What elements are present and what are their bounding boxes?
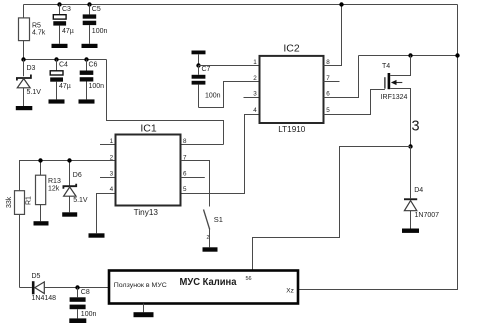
svg-text:R1: R1 <box>26 196 33 205</box>
svg-text:Tiny13: Tiny13 <box>134 208 159 217</box>
wire IC2 pin8 up to top rail <box>324 5 342 66</box>
node junction C7 <box>196 63 200 67</box>
wire IC1 pin7 to S1 <box>181 161 210 207</box>
svg-text:3: 3 <box>412 118 420 134</box>
svg-text:Xz: Xz <box>286 287 294 294</box>
svg-text:12k: 12k <box>48 186 60 193</box>
svg-text:IC1: IC1 <box>140 122 157 134</box>
capacitor C6 <box>80 60 94 100</box>
ground under C4 <box>49 99 65 103</box>
svg-text:S1: S1 <box>214 215 223 224</box>
ground under S1 <box>203 247 218 251</box>
ground under C5 <box>82 44 98 48</box>
wire MUC ground <box>143 304 145 313</box>
node junction C8 <box>75 285 79 289</box>
svg-text:47µ: 47µ <box>59 83 71 90</box>
node junction C3 <box>57 2 61 6</box>
svg-text:2: 2 <box>253 75 257 82</box>
wire drain rail <box>359 55 458 57</box>
capacitor C5 <box>83 5 97 44</box>
ground under D3 <box>16 106 33 110</box>
svg-text:C3: C3 <box>62 6 71 13</box>
wire IC2 pin5 to T4 gate <box>324 90 385 115</box>
svg-text:5: 5 <box>326 107 330 114</box>
svg-text:6: 6 <box>183 171 187 178</box>
svg-text:4.7k: 4.7k <box>32 29 46 36</box>
node junction source D4 <box>408 144 412 148</box>
svg-text:56: 56 <box>246 276 252 282</box>
ground under C8 <box>69 318 86 323</box>
svg-text:8: 8 <box>183 138 187 145</box>
ground under MUC box <box>134 312 154 317</box>
node junction drain rail T4 <box>408 53 412 57</box>
block MUC Kalina <box>109 271 298 304</box>
svg-text:C4: C4 <box>59 62 68 69</box>
svg-text:C6: C6 <box>89 62 98 69</box>
wire IC1 pin8 <box>181 144 224 146</box>
ground under R13 <box>34 221 49 225</box>
ground under C6 <box>79 99 95 103</box>
wire IC1 pin1 stub <box>100 144 116 146</box>
ground under D4 <box>402 229 419 233</box>
wire IC2 pin7 stub <box>324 81 340 83</box>
svg-text:100n: 100n <box>89 83 105 90</box>
wire IC2 pin1 to C7 <box>199 65 260 67</box>
switch S1 <box>204 210 210 248</box>
node junction pin8 rail <box>339 2 343 6</box>
svg-text:5: 5 <box>183 186 187 193</box>
transistor T4 MOSFET <box>385 56 411 147</box>
node junction C6 <box>84 57 88 61</box>
node junction C5 <box>87 2 91 6</box>
label C6 100n <box>89 62 105 90</box>
svg-text:Ползунок в МУС: Ползунок в МУС <box>114 282 167 289</box>
diode D5 <box>20 281 110 294</box>
node junction C4 <box>54 57 58 61</box>
zener diode D6 <box>63 161 76 213</box>
wire right rail <box>457 5 459 290</box>
svg-text:T4: T4 <box>382 63 390 70</box>
svg-text:1: 1 <box>253 59 257 66</box>
label C5 100n <box>92 6 108 35</box>
node junction R5/D3 <box>21 57 25 61</box>
label R13 12k <box>48 178 61 193</box>
chip IC1 Tiny13 <box>116 135 181 206</box>
svg-text:33k: 33k <box>6 196 13 208</box>
chip IC2 LT1910 <box>260 56 324 123</box>
svg-text:6: 6 <box>326 91 330 98</box>
label D3 5.1V <box>27 65 42 96</box>
svg-text:100n: 100n <box>92 28 108 35</box>
svg-text:C5: C5 <box>92 6 101 13</box>
zener diode D3 <box>17 60 31 107</box>
resistor R5 <box>19 5 30 60</box>
svg-text:3: 3 <box>110 171 114 178</box>
diode D4 <box>404 147 417 229</box>
svg-text:4: 4 <box>110 186 114 193</box>
wire node3 to MUC box <box>253 147 411 271</box>
ground bar above C7 <box>192 51 206 55</box>
svg-text:МУС Калина: МУС Калина <box>180 277 237 288</box>
svg-text:R13: R13 <box>48 178 61 185</box>
wire IC1 pin3 stub <box>100 177 116 179</box>
ground under D6 <box>62 212 77 216</box>
svg-text:IC2: IC2 <box>283 42 300 54</box>
svg-text:7: 7 <box>326 75 330 82</box>
svg-text:2: 2 <box>110 155 114 162</box>
ground under IC1 pin4 <box>89 233 105 237</box>
wire 5V rail down-right to IC1 pin8 <box>107 60 224 145</box>
resistor R1 <box>15 191 25 288</box>
node junction D6 <box>67 158 71 162</box>
node junction drain rail right <box>455 53 459 57</box>
wire IC2 pin4 down to IC1 pin5 <box>181 115 260 194</box>
wire IC2 pin6 up to drain rail <box>324 56 359 98</box>
ground under C3 <box>52 44 68 48</box>
wire IC1 pin6 stub <box>181 177 205 179</box>
svg-text:LT1910: LT1910 <box>278 125 306 134</box>
svg-text:IRF1324: IRF1324 <box>381 94 408 101</box>
resistor R13 <box>36 161 46 222</box>
svg-text:4: 4 <box>253 107 257 114</box>
svg-text:1: 1 <box>110 138 114 145</box>
label C3 47u <box>62 6 74 35</box>
wire C7 node <box>198 54 200 65</box>
svg-text:5.1V: 5.1V <box>27 89 42 96</box>
node junction R13 <box>38 158 42 162</box>
capacitor C4 electrolytic <box>50 60 63 100</box>
svg-text:1N4148: 1N4148 <box>32 295 57 302</box>
svg-text:C7: C7 <box>202 66 211 73</box>
svg-text:1N7007: 1N7007 <box>415 212 440 219</box>
svg-text:D5: D5 <box>32 273 41 280</box>
svg-text:8: 8 <box>326 59 330 66</box>
capacitor C3 electrolytic <box>53 5 66 44</box>
capacitor C7 <box>192 66 206 108</box>
svg-text:D6: D6 <box>73 172 82 179</box>
label R5 4.7k <box>32 23 46 37</box>
wire top +12V rail <box>24 4 458 6</box>
wire bottom right to Xz <box>298 289 458 291</box>
wire IC2 pin3 stub <box>244 97 260 99</box>
svg-text:100n: 100n <box>205 92 221 99</box>
svg-text:5.1V: 5.1V <box>73 197 88 204</box>
svg-text:3: 3 <box>253 91 257 98</box>
svg-text:C8: C8 <box>81 289 90 296</box>
wire second rail (5V node) <box>24 59 107 61</box>
wire IC1 pin4 to ground <box>97 194 116 234</box>
svg-text:D4: D4 <box>414 187 423 194</box>
svg-text:100n: 100n <box>81 311 97 318</box>
wire IC1 pin2 rail <box>20 161 116 191</box>
svg-text:2: 2 <box>207 235 210 241</box>
label C4 47u <box>59 62 71 90</box>
capacitor C8 <box>70 288 86 319</box>
svg-text:D3: D3 <box>27 65 36 72</box>
wire C7 bottom to IC2 pin2 <box>199 82 260 108</box>
svg-text:47µ: 47µ <box>62 28 74 35</box>
